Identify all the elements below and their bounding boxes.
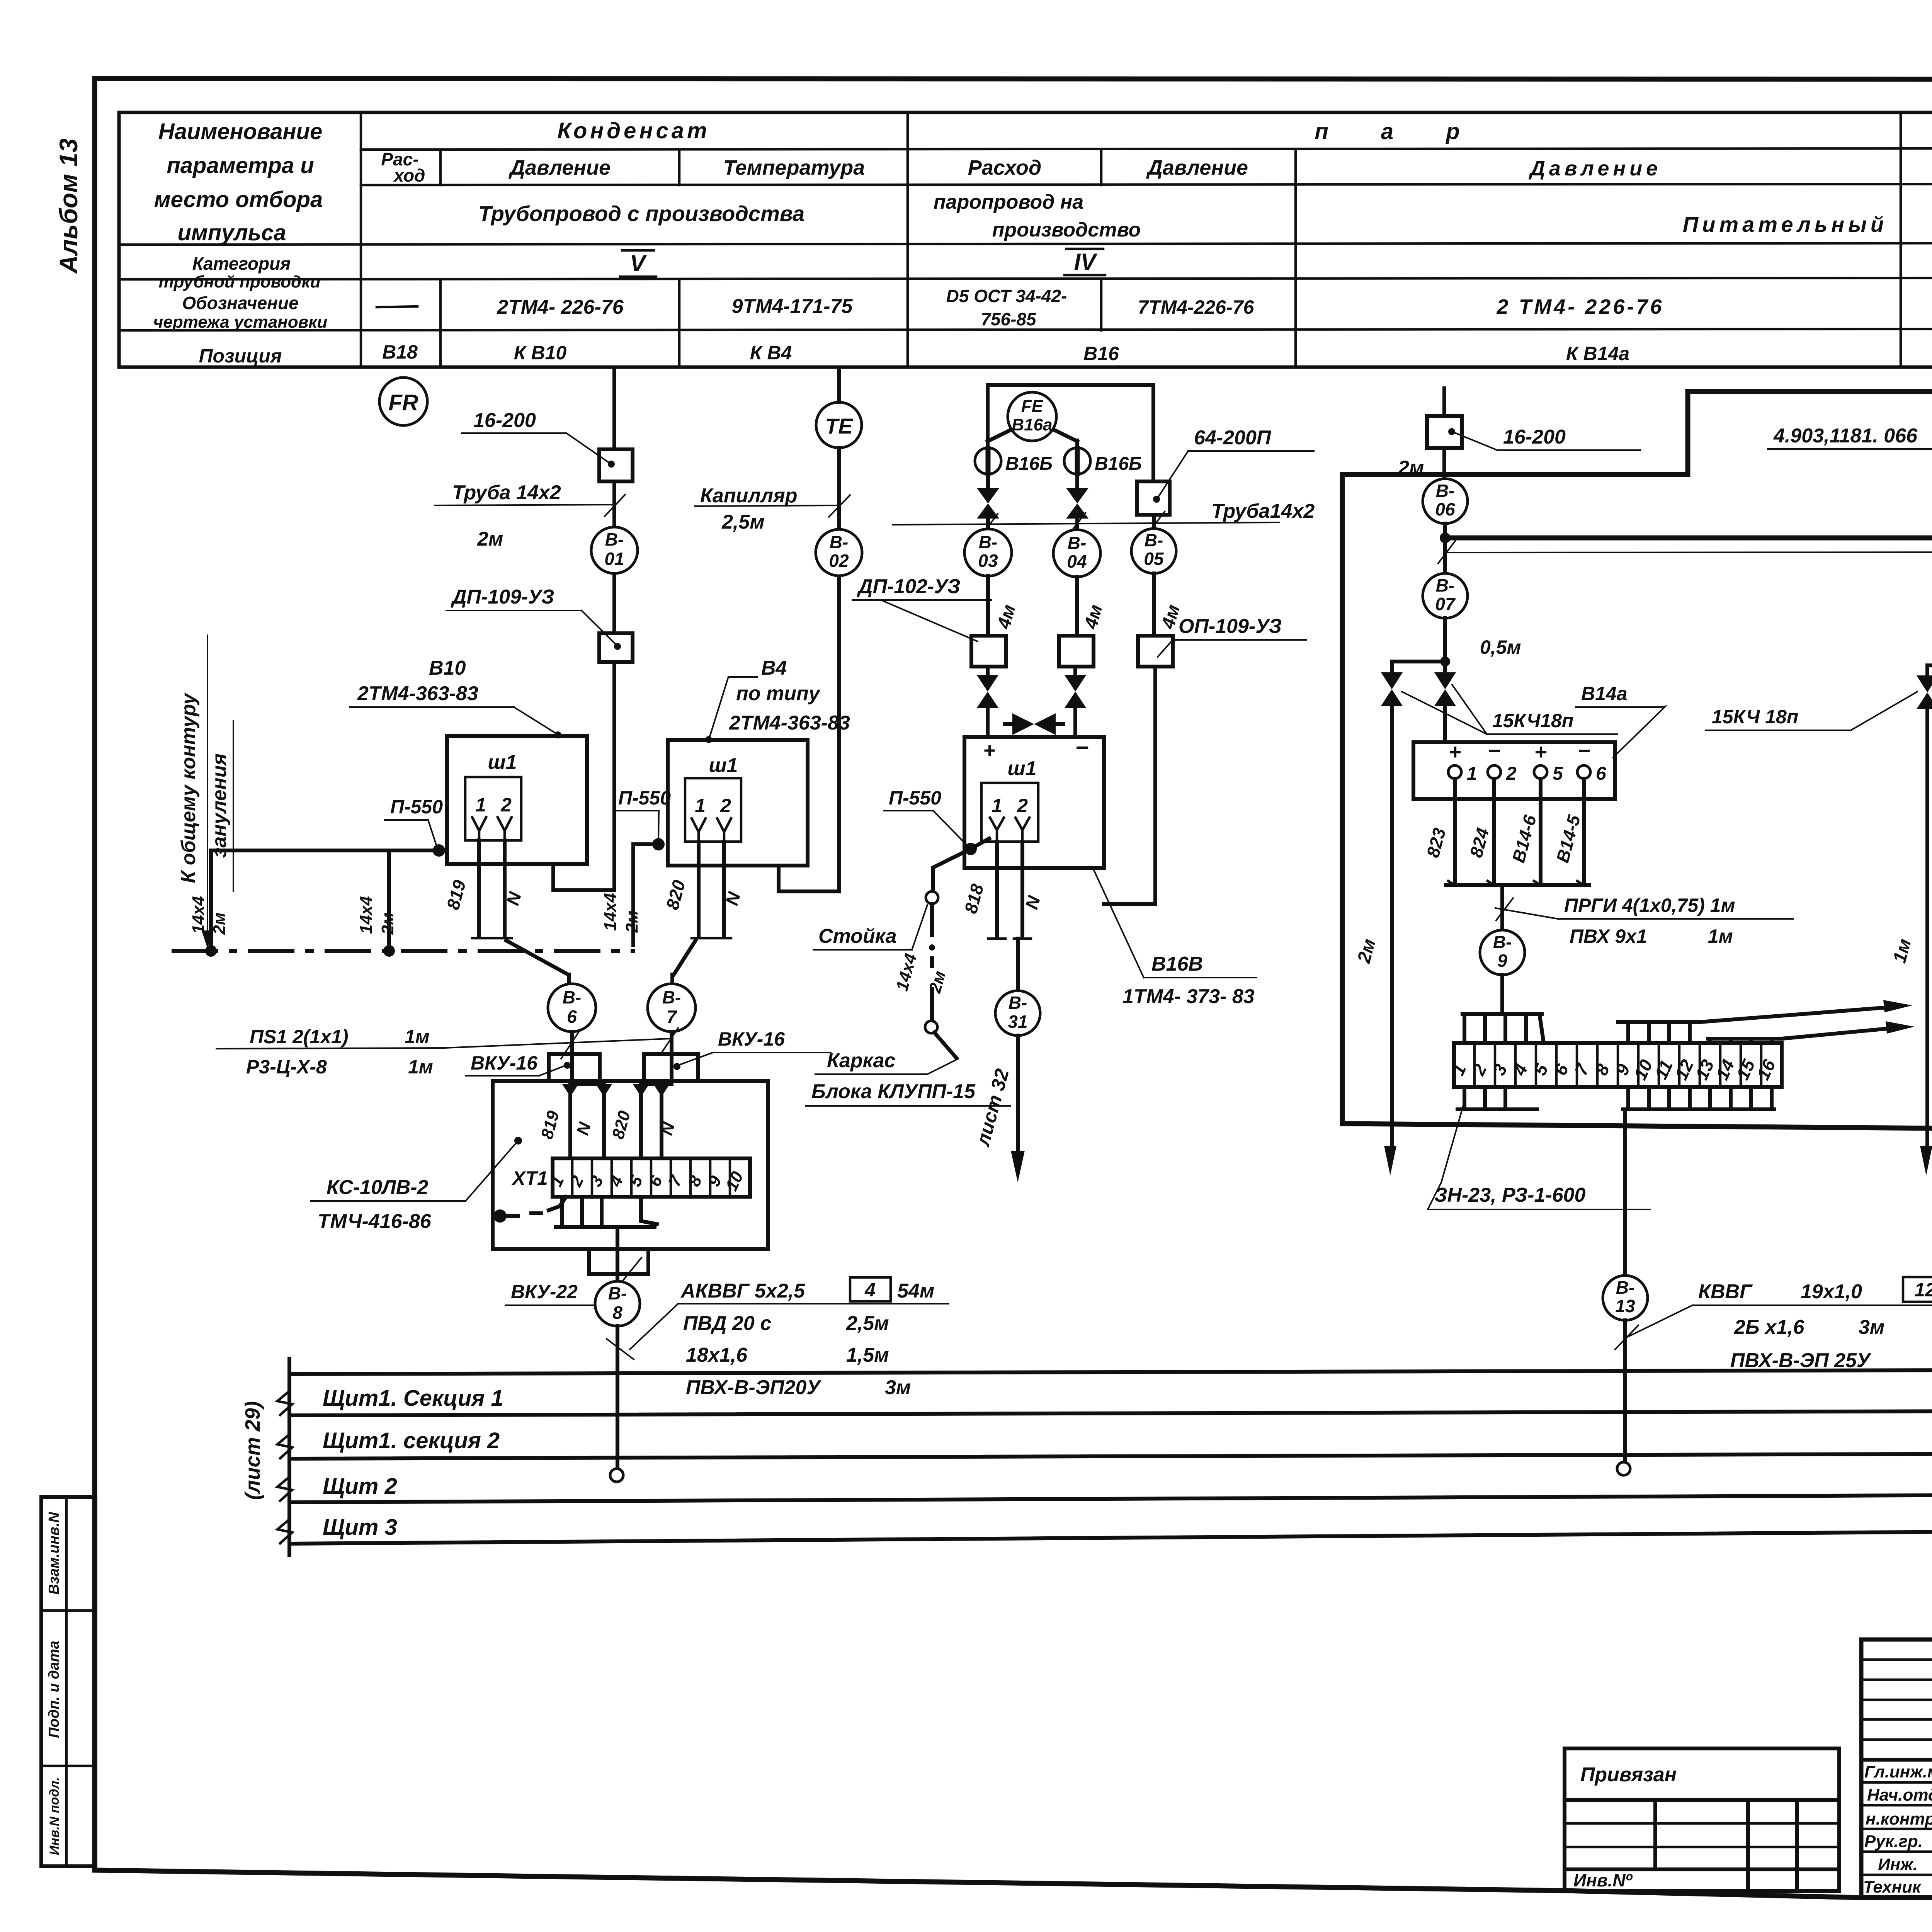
label Стойка with stand circle [813, 891, 956, 1058]
svg-text:ВКУ-16: ВКУ-16 [471, 1052, 538, 1074]
left margin strip boxes [41, 1497, 95, 1866]
terminal block 1..16 [1448, 1043, 1782, 1087]
sensor terminal box 1 (В14а) [1413, 738, 1615, 799]
instrument TE [816, 402, 862, 448]
svg-text:6: 6 [567, 1007, 577, 1027]
valve on В-04 line upper [1066, 474, 1088, 519]
svg-text:07: 07 [1435, 594, 1456, 614]
cable 818 from В16В [960, 842, 1044, 991]
wire to sheet 32 [972, 1036, 1025, 1182]
svg-text:Привязан: Привязан [1580, 1764, 1677, 1786]
grounding bus (dash-dot) к контуру зануления [173, 945, 633, 957]
svg-text:Инв.Nº: Инв.Nº [1573, 1870, 1633, 1890]
svg-text:D5 ОСТ 34-42-: D5 ОСТ 34-42- [946, 286, 1067, 306]
svg-text:В16: В16 [1083, 343, 1119, 364]
svg-text:13: 13 [1615, 1296, 1635, 1316]
svg-text:15КЧ18п: 15КЧ18п [1492, 710, 1573, 731]
svg-text:ЗН-23, РЗ-1-600: ЗН-23, РЗ-1-600 [1434, 1184, 1586, 1206]
transmitter box В4 (ш1) [668, 740, 808, 866]
svg-text:05: 05 [1144, 549, 1164, 569]
svg-text:В-: В- [1068, 533, 1087, 553]
svg-text:В10: В10 [429, 657, 466, 679]
bypass valve horizontal [1005, 713, 1063, 735]
svg-text:1м: 1м [405, 1026, 430, 1048]
svg-text:Давление: Давление [1146, 156, 1248, 179]
svg-text:ХТ1: ХТ1 [511, 1167, 548, 1189]
label В16В 1ТМ4-373-83 [1094, 869, 1257, 1008]
steam flow element piping loop [988, 385, 1153, 481]
svg-text:В-: В- [1493, 932, 1512, 952]
wire В-13 down to bus [1603, 1275, 1648, 1475]
svg-text:Инж.: Инж. [1878, 1855, 1918, 1874]
svg-text:1: 1 [475, 794, 486, 816]
wire node В-8 [595, 1281, 640, 1326]
svg-text:ПВХ-В-ЭП 25У: ПВХ-В-ЭП 25У [1730, 1349, 1872, 1372]
svg-text:Температура: Температура [723, 156, 865, 179]
svg-text:К В10: К В10 [514, 342, 567, 364]
svg-text:В4: В4 [761, 657, 787, 679]
svg-text:Давление: Давление [1529, 157, 1662, 180]
label Труба 14х2 (steam) with leader [893, 500, 1315, 536]
label 15КЧ18п group1 [1402, 685, 1617, 734]
svg-text:2: 2 [1506, 764, 1517, 784]
connector ВКУ-22 [589, 1249, 648, 1274]
svg-text:Каркас: Каркас [827, 1049, 896, 1072]
svg-text:2,5м: 2,5м [846, 1312, 889, 1335]
svg-text:В-: В- [1436, 481, 1455, 501]
svg-text:7ТМ4-226-76: 7ТМ4-226-76 [1138, 296, 1255, 318]
label КС-10ЛВ-2 ТМЧ-416-86 [311, 1137, 522, 1233]
svg-text:ПРГИ 4(1х0,75) 1м: ПРГИ 4(1х0,75) 1м [1564, 895, 1735, 916]
grounding clamp П-550 left [384, 796, 445, 857]
junction block КС-10ЛВ-2 [493, 1081, 768, 1249]
title block texts [1863, 1656, 1932, 1897]
valve on В-04 line lower [1065, 667, 1086, 737]
svg-text:В16а: В16а [1012, 415, 1052, 434]
svg-text:19х1,0: 19х1,0 [1801, 1281, 1862, 1303]
bus labels [323, 1386, 503, 1540]
svg-text:К В4: К В4 [750, 342, 792, 364]
svg-text:В18: В18 [382, 341, 418, 363]
svg-text:2ТМ4-363-83: 2ТМ4-363-83 [729, 712, 850, 734]
label ОП-109-УЗ [1158, 615, 1306, 657]
svg-text:2м: 2м [378, 912, 397, 935]
svg-text:Трубопровод с производства: Трубопровод с производства [478, 201, 804, 226]
lower collector cells 9-16 and В-13 feeder [1623, 1087, 1774, 1275]
svg-text:импульса: импульса [177, 220, 286, 245]
svg-text:3м: 3м [885, 1376, 911, 1399]
svg-text:В-: В- [1145, 530, 1163, 550]
svg-text:К общему контуру: К общему контуру [177, 692, 200, 883]
svg-text:КВВГ: КВВГ [1698, 1281, 1753, 1303]
tube line Труба 14х2 (thin) [1438, 533, 1932, 589]
cable label КВВГ 19х1,0 [12] 60м [1615, 1277, 1932, 1372]
svg-text:В14а: В14а [1581, 683, 1628, 704]
svg-text:2ТМ4-363-83: 2ТМ4-363-83 [357, 682, 478, 705]
device 64-200П square [1137, 427, 1314, 515]
svg-text:Нач.отд: Нач.отд [1867, 1786, 1932, 1804]
svg-text:1: 1 [1467, 764, 1477, 784]
svg-text:2,5м: 2,5м [721, 511, 765, 533]
svg-text:2м: 2м [477, 528, 503, 550]
svg-text:параметра и: параметра и [167, 153, 314, 178]
grounding wire from В10 to bus [189, 850, 439, 945]
flow element FE В16а [1008, 392, 1056, 441]
svg-text:Взам.инв.N: Взам.инв.N [46, 1512, 62, 1595]
svg-text:5: 5 [1553, 764, 1563, 784]
lower collector cells 1-3 [1458, 1087, 1537, 1109]
svg-text:Техник: Техник [1863, 1878, 1922, 1896]
grounding dash-dot inside КС-10 [493, 1197, 566, 1223]
svg-text:1,5м: 1,5м [846, 1344, 889, 1366]
svg-text:15КЧ 18п: 15КЧ 18п [1712, 706, 1798, 728]
label Труба 14х2 2м [435, 481, 625, 550]
svg-text:В-: В- [608, 1283, 627, 1303]
svg-text:трубной проводки: трубной проводки [158, 272, 320, 291]
valve position circle В-01 [591, 527, 638, 573]
valve position circle В-07 [1423, 573, 1521, 672]
svg-text:1: 1 [992, 795, 1002, 816]
svg-text:16-200: 16-200 [1503, 426, 1566, 448]
XT1 lower wires to collector [556, 1197, 657, 1304]
svg-text:03: 03 [978, 551, 998, 571]
valve position circle В-04 [1053, 519, 1100, 577]
svg-text:ВКУ-22: ВКУ-22 [511, 1281, 578, 1303]
title block frame [1861, 1639, 1932, 1898]
svg-text:−: − [1578, 738, 1590, 763]
wire В-8 down to panel bus [610, 1326, 623, 1482]
svg-text:2: 2 [1017, 795, 1028, 816]
svg-text:ВКУ-16: ВКУ-16 [718, 1028, 785, 1050]
label ДП-109-УЗ [446, 586, 621, 650]
svg-text:В16Б: В16Б [1095, 454, 1142, 474]
steam impulse tubes 4м down to ДП [988, 573, 1184, 636]
svg-text:Блока КЛУПП-15: Блока КЛУПП-15 [811, 1080, 976, 1103]
label ДП-102-УЗ [852, 575, 991, 641]
svg-text:0,5м: 0,5м [1480, 636, 1521, 658]
svg-text:14х4: 14х4 [357, 896, 376, 934]
impulse pipe В18 (condensate flow) [553, 370, 614, 890]
svg-text:Давление: Давление [509, 156, 611, 179]
svg-text:FE: FE [1021, 397, 1044, 416]
svg-text:12: 12 [1914, 1279, 1932, 1301]
svg-text:−: − [1488, 738, 1501, 763]
group1 isolating valves [1354, 656, 1456, 1175]
svg-text:ТМЧ-416-86: ТМЧ-416-86 [318, 1210, 432, 1233]
svg-text:ш1: ш1 [709, 754, 738, 777]
wire node В-6 [548, 984, 596, 1032]
svg-text:ТЕ: ТЕ [825, 414, 853, 438]
svg-text:4.903,1181. 066: 4.903,1181. 066 [1773, 425, 1918, 447]
svg-text:01: 01 [604, 549, 624, 569]
svg-text:Подп. и дата: Подп. и дата [46, 1641, 62, 1738]
ДП square on В-05 line [1138, 636, 1173, 667]
svg-text:В-: В- [1436, 575, 1455, 595]
svg-text:Капилляр: Капилляр [700, 485, 798, 507]
label ВКУ-16 right [673, 1028, 831, 1070]
svg-text:К В14а: К В14а [1566, 343, 1629, 364]
svg-text:9ТМ4-171-75: 9ТМ4-171-75 [732, 295, 853, 318]
valve on В-03 line lower [977, 667, 998, 737]
terminal strip ХТ1 [511, 1158, 750, 1197]
wire node В-31 [995, 991, 1040, 1036]
label В10 2ТМ4-363-83 [350, 657, 561, 738]
svg-text:02: 02 [829, 551, 849, 571]
svg-text:зануления: зануления [208, 753, 231, 858]
deaerator impulse piping outline [1342, 391, 1932, 1133]
svg-text:2: 2 [720, 795, 731, 816]
В-05 line down to box side [1104, 667, 1155, 904]
svg-text:2м: 2м [1398, 457, 1424, 479]
deaerator level tap header [1927, 661, 1932, 671]
wire node В-9 [1480, 885, 1525, 1014]
svg-text:14х4: 14х4 [601, 893, 620, 931]
cable 820 from В4 down [662, 842, 744, 984]
svg-text:Рук.гр.: Рук.гр. [1864, 1832, 1923, 1851]
svg-text:по типу: по типу [736, 682, 821, 705]
svg-text:1: 1 [695, 795, 706, 816]
grounding clamp П-550 right [884, 787, 989, 892]
svg-text:АКВВГ 5х2,5: АКВВГ 5х2,5 [680, 1280, 805, 1302]
damper В16Б right [1064, 448, 1142, 474]
svg-text:паропровод на: паропровод на [934, 191, 1083, 213]
svg-text:Щит1. секция 2: Щит1. секция 2 [323, 1428, 500, 1453]
svg-text:КС-10ЛВ-2: КС-10ЛВ-2 [327, 1176, 429, 1199]
label 15КЧ 18п middle [1706, 692, 1917, 730]
cable АКВВГ 5х2,5 [4] 54м etc [607, 1277, 949, 1399]
label 2м at В-06 feed [1398, 457, 1424, 479]
capillary line from TE [779, 369, 839, 891]
label ПS1 2(1х1) 1м / Р3-Ц-Х-8 1м [216, 1026, 678, 1078]
svg-text:В-: В- [830, 532, 849, 552]
label В4 по типу 2ТМ4-363-83 [705, 657, 850, 743]
label (лист 29) [241, 1401, 264, 1500]
svg-text:Р3-Ц-Х-8: Р3-Ц-Х-8 [246, 1056, 327, 1078]
svg-text:Стойка: Стойка [818, 925, 897, 947]
valve position circle В-02 [816, 529, 862, 576]
svg-text:производство: производство [992, 219, 1141, 241]
svg-text:Категория: Категория [192, 253, 291, 274]
svg-text:ш1: ш1 [488, 751, 517, 774]
svg-text:В-: В- [662, 987, 681, 1007]
svg-text:8: 8 [612, 1303, 622, 1323]
transmitter box В16В (ш1) [964, 735, 1104, 868]
label Каркас Блока КЛУПП-15 [806, 1049, 1010, 1106]
linked-project table (Привязан) [1565, 1748, 1839, 1891]
panel bus lines [277, 1349, 1932, 1582]
svg-text:Питательный: Питательный [1683, 212, 1888, 236]
svg-text:ПВХ-В-ЭП20У: ПВХ-В-ЭП20У [686, 1376, 821, 1399]
valve position circle В-06 [1423, 479, 1468, 572]
svg-text:ход: ход [393, 165, 425, 185]
svg-text:В-: В- [1009, 993, 1027, 1013]
primary device 16-200 on В18 [599, 449, 633, 481]
svg-text:+: + [983, 739, 995, 762]
svg-text:Щит 3: Щит 3 [323, 1515, 397, 1540]
svg-text:2: 2 [500, 794, 512, 816]
ДП square on В-03 line [971, 636, 1006, 667]
svg-text:756-85: 756-85 [981, 309, 1037, 329]
svg-text:Расход: Расход [968, 156, 1041, 179]
svg-text:ПВД 20 с: ПВД 20 с [683, 1312, 771, 1335]
svg-text:В-: В- [979, 532, 998, 552]
svg-text:Наименование: Наименование [158, 119, 322, 144]
svg-text:чертежа установки: чертежа установки [153, 313, 328, 332]
connector boxes ВКУ-16 [549, 1054, 698, 1081]
svg-text:В-: В- [563, 987, 582, 1007]
grounding clamp П-550 middle [601, 787, 671, 945]
svg-text:14х4: 14х4 [189, 896, 208, 934]
svg-text:2 ТМ4- 226-76: 2 ТМ4- 226-76 [1497, 295, 1664, 318]
svg-text:Альбом 13: Альбом 13 [54, 138, 83, 274]
collector over cells 13-16 with arrow [1708, 1021, 1915, 1043]
valve on В-03 line upper [977, 474, 999, 519]
svg-text:ПS1 2(1х1): ПS1 2(1х1) [250, 1026, 349, 1048]
svg-text:Инв.N подл.: Инв.N подл. [47, 1777, 62, 1855]
label 16-200 (feed water) [1448, 426, 1640, 450]
svg-text:2ТМ4- 226-76: 2ТМ4- 226-76 [497, 296, 624, 318]
transmitter box В10 (ш1) [447, 736, 587, 864]
svg-text:16-200: 16-200 [473, 409, 536, 432]
label ЗН-23, РЗ-1-600 [1428, 1101, 1650, 1209]
svg-text:П-550: П-550 [618, 787, 671, 809]
label Капилляр 2,5м [695, 485, 850, 533]
svg-text:FR: FR [388, 390, 418, 415]
cable 819 from В10 down [442, 840, 569, 984]
label 4.903.1181.066 [1768, 425, 1932, 449]
svg-text:Конденсат: Конденсат [557, 118, 710, 143]
wires 823 824 В14-6 В14-5 [1422, 779, 1589, 885]
svg-text:Щит1. Секция 1: Щит1. Секция 1 [323, 1386, 503, 1411]
svg-text:В16Б: В16Б [1005, 454, 1053, 474]
album label: Альбом 13 [54, 138, 83, 274]
svg-text:31: 31 [1008, 1012, 1027, 1032]
valve position circle В-05 [1131, 515, 1176, 573]
svg-text:3м: 3м [1859, 1316, 1884, 1338]
svg-text:В-: В- [605, 529, 624, 549]
label К общему контуру зануления [177, 635, 233, 949]
svg-text:В16В: В16В [1151, 953, 1203, 975]
svg-text:ш1: ш1 [1007, 757, 1036, 780]
valve position circle В-03 [964, 519, 1012, 576]
svg-text:ОП-109-УЗ: ОП-109-УЗ [1179, 615, 1282, 638]
svg-text:Обозначение: Обозначение [182, 293, 298, 313]
svg-text:П-550: П-550 [889, 787, 941, 809]
svg-text:В-: В- [1616, 1277, 1635, 1298]
cable label ПРГИ 4(1х0,75)1м ПВХ 9х1 1м [1495, 895, 1793, 947]
svg-text:1м: 1м [1708, 925, 1733, 947]
svg-text:п а р: п а р [1315, 119, 1483, 144]
svg-text:04: 04 [1067, 551, 1087, 571]
svg-text:−: − [1075, 735, 1088, 760]
label ВКУ-16 left [466, 1052, 571, 1076]
svg-text:18х1,6: 18х1,6 [686, 1344, 748, 1366]
wires into XT1 [537, 1032, 679, 1158]
svg-text:место отбора: место отбора [154, 187, 323, 212]
deaerator impulse header (thick) [1445, 538, 1932, 579]
label ВКУ-22 [505, 1258, 641, 1305]
svg-text:1ТМ4- 373- 83: 1ТМ4- 373- 83 [1122, 985, 1255, 1008]
label 16-200 [462, 409, 615, 468]
collector over cells 1-5 [1463, 1014, 1544, 1043]
svg-text:+: + [1449, 740, 1461, 764]
device ДП-109-УЗ square on В18 [599, 633, 633, 662]
svg-text:н.контр: н.контр [1866, 1810, 1932, 1828]
svg-text:ДП-109-УЗ: ДП-109-УЗ [451, 586, 554, 608]
svg-text:6: 6 [1596, 764, 1606, 784]
parameter table grid [119, 112, 1932, 367]
svg-text:4: 4 [864, 1279, 876, 1301]
label В14а [1576, 683, 1665, 757]
svg-text:54м: 54м [897, 1280, 934, 1302]
svg-text:V: V [630, 250, 647, 276]
svg-text:7: 7 [667, 1007, 677, 1027]
ДП square on В-04 line [1059, 636, 1094, 667]
svg-text:Гл.инж.м: Гл.инж.м [1864, 1762, 1932, 1781]
wire node В-7 [648, 984, 696, 1032]
svg-text:2Б х1,6: 2Б х1,6 [1734, 1316, 1804, 1338]
svg-text:ПВХ 9х1: ПВХ 9х1 [1570, 925, 1647, 947]
group2 isolating valve (left) [1889, 665, 1932, 1175]
svg-text:Позиция: Позиция [199, 345, 282, 367]
table header texts [153, 118, 1932, 367]
svg-text:П-550: П-550 [390, 796, 443, 818]
instrument FR [379, 378, 427, 425]
svg-text:IV: IV [1074, 249, 1098, 275]
svg-text:06: 06 [1435, 499, 1455, 519]
svg-text:+: + [1534, 740, 1547, 764]
svg-text:9: 9 [1497, 951, 1507, 971]
svg-text:ДП-102-УЗ: ДП-102-УЗ [857, 575, 960, 598]
svg-text:Труба14х2: Труба14х2 [1211, 500, 1315, 522]
svg-text:(лист 29): (лист 29) [241, 1401, 264, 1500]
svg-text:Труба 14х2: Труба 14х2 [452, 481, 561, 504]
svg-text:1м: 1м [408, 1056, 433, 1078]
В-06 chain: primary box [1427, 388, 1462, 479]
svg-text:Щит 2: Щит 2 [323, 1474, 397, 1499]
svg-text:2м: 2м [622, 910, 641, 933]
svg-text:64-200П: 64-200П [1194, 427, 1272, 449]
damper В16Б left [975, 448, 1053, 474]
collector over cells 9-12 with arrow [1618, 1000, 1912, 1043]
